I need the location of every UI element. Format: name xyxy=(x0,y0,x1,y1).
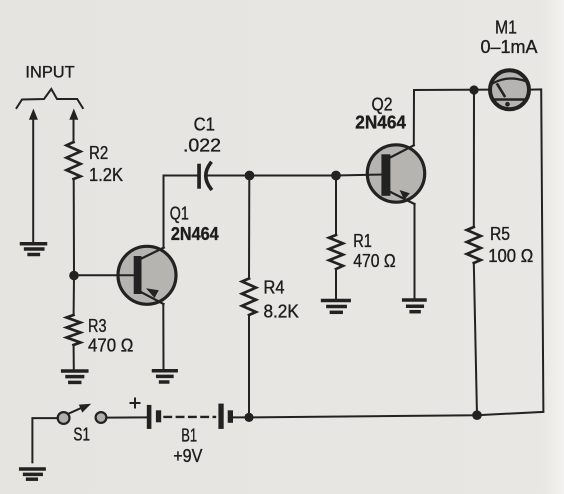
wire node A to R3 xyxy=(73,276,75,316)
node A (Q1 base junction) xyxy=(69,271,79,281)
svg-text:M1: M1 xyxy=(495,18,517,38)
wire node A to Q1 base xyxy=(74,274,135,276)
svg-text:Q1: Q1 xyxy=(170,204,189,224)
battery plus sign xyxy=(131,399,140,408)
svg-text:470 Ω: 470 Ω xyxy=(353,251,396,271)
wire meter right to bottom rail xyxy=(249,89,543,417)
wire R4 to node D xyxy=(248,315,250,417)
ground (below Q1 emitter) xyxy=(154,371,177,382)
wire R1 to ground xyxy=(335,269,337,299)
transistor Q1 xyxy=(118,246,176,304)
node D (bottom rail junction) xyxy=(472,410,482,420)
wire node E to R5 xyxy=(473,90,475,227)
svg-text:INPUT: INPUT xyxy=(25,63,74,82)
resistor R3 xyxy=(67,315,81,345)
transistor Q2 xyxy=(367,145,424,204)
svg-text:2N464: 2N464 xyxy=(355,113,406,133)
capacitor C1 xyxy=(197,163,211,189)
svg-text:R4: R4 xyxy=(264,278,285,298)
svg-text:R2: R2 xyxy=(89,143,108,163)
resistor R2 xyxy=(67,142,81,179)
ground (left input) xyxy=(22,244,46,255)
wire R3 to ground xyxy=(73,345,75,370)
wire battery to node F xyxy=(233,416,249,418)
wire Q2 collector to top rail xyxy=(414,90,489,146)
svg-text:8.2K: 8.2K xyxy=(264,302,299,322)
svg-text:S1: S1 xyxy=(73,425,90,445)
node F (battery/R4 junction) xyxy=(244,413,253,422)
ground (below S1) xyxy=(21,469,44,479)
svg-text:.022: .022 xyxy=(183,136,221,156)
svg-text:R1: R1 xyxy=(353,231,372,251)
switch S1 xyxy=(58,404,107,424)
svg-text:2N464: 2N464 xyxy=(171,224,219,244)
resistor R4 xyxy=(242,279,256,316)
wire C1 to node B to node C to Q2 base xyxy=(207,175,382,176)
input terminal arrow left xyxy=(29,109,38,243)
wire Q1 collector to C1 node xyxy=(164,176,198,248)
wire node C to R1 xyxy=(335,176,337,236)
wire Q1 emitter to ground xyxy=(162,304,164,370)
input terminal arrow right xyxy=(69,109,78,143)
wire S1 to ground xyxy=(32,418,57,462)
node E (meter/R5 junction) xyxy=(469,85,478,94)
wire R2 to node A xyxy=(73,179,75,276)
input brace xyxy=(17,89,83,108)
node C (R1 junction) xyxy=(331,171,341,181)
battery B1 xyxy=(147,404,233,429)
resistor R5 xyxy=(467,227,481,263)
wire R5 to node D xyxy=(474,263,477,415)
node B (R4 junction) xyxy=(245,171,255,181)
svg-text:470 Ω: 470 Ω xyxy=(88,336,133,356)
ground (below Q2 emitter) xyxy=(404,300,425,312)
svg-text:R3: R3 xyxy=(88,316,107,336)
svg-text:100 Ω: 100 Ω xyxy=(488,246,533,266)
wire Q2 emitter to ground xyxy=(414,204,416,299)
svg-text:B1: B1 xyxy=(181,426,197,446)
wire S1 to battery xyxy=(106,416,146,418)
ground (below R3) xyxy=(63,371,87,382)
svg-text:1.2K: 1.2K xyxy=(89,165,123,185)
svg-text:Q2: Q2 xyxy=(372,95,393,115)
svg-text:C1: C1 xyxy=(194,115,215,135)
meter M1 xyxy=(490,70,529,109)
resistor R1 xyxy=(329,235,343,269)
svg-text:+9V: +9V xyxy=(173,446,202,466)
svg-text:0–1mA: 0–1mA xyxy=(481,37,538,57)
wire node B to R4 xyxy=(248,176,250,279)
ground (below R1) xyxy=(323,301,350,313)
svg-text:R5: R5 xyxy=(490,224,510,244)
